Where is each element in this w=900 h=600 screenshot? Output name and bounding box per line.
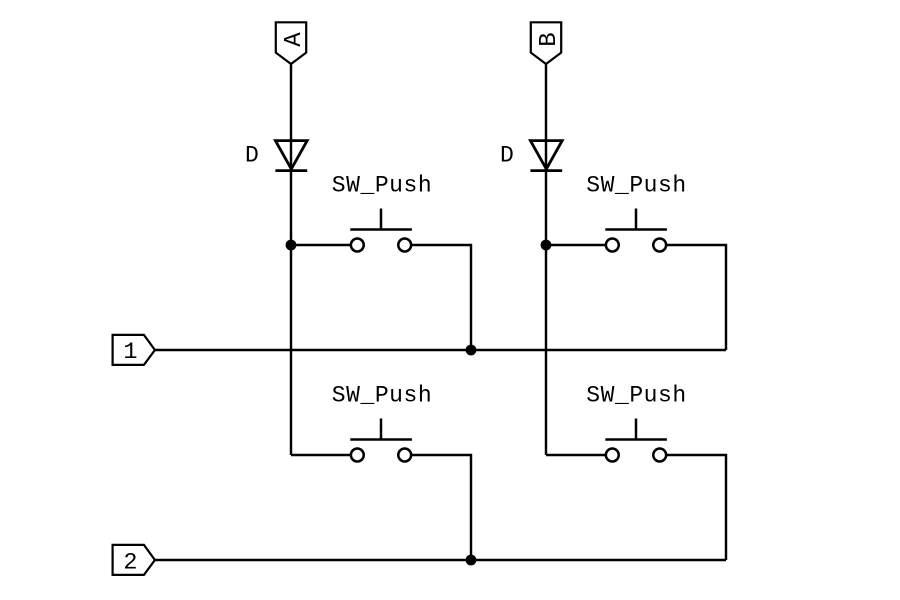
wire B2 left pin [546,454,605,456]
junction dot column B / switch B1 [541,240,552,251]
svg-text:D: D [500,143,514,169]
svg-text:SW_Push: SW_Push [586,173,686,199]
svg-text:1: 1 [123,339,137,366]
svg-text:B: B [536,32,563,46]
svg-text:A: A [281,32,308,47]
switch SW_Push B2 [605,419,667,462]
hierarchical label A [276,22,308,64]
switch SW_Push B1 [605,209,667,252]
wire A2 right pin to drop [412,455,471,560]
switch SW_Push A2 [350,419,412,462]
wire net A vertical (label A to switch row 2 corner) [290,64,292,455]
hierarchical label 1 [113,335,155,366]
hierarchical label 2 [113,545,155,577]
junction dot A2 drop on row 2 [466,555,477,566]
wire B1 left pin [546,244,605,246]
diode D (column B) [530,141,562,171]
svg-text:SW_Push: SW_Push [332,383,432,409]
junction dot A1 drop on row 1 [466,345,477,356]
svg-text:SW_Push: SW_Push [586,383,686,409]
wire net 2 horizontal row [155,559,726,561]
wire net B vertical (label B to switch row 2 corner) [545,64,547,455]
wire A1 left pin [291,244,350,246]
switch SW_Push A1 [350,209,412,252]
junction dot column A / switch A1 [286,240,297,251]
diode D (column A) [275,141,307,171]
wire A2 left pin [291,454,350,456]
svg-text:D: D [245,143,259,169]
svg-text:SW_Push: SW_Push [332,173,432,199]
svg-text:2: 2 [123,550,137,577]
wire B2 right pin to row 2 end [667,455,726,560]
wire B1 right pin to row 1 end [667,245,726,350]
hierarchical label B [531,22,563,64]
wire net 1 horizontal row [155,349,726,351]
wire A1 right pin to drop [412,245,471,350]
